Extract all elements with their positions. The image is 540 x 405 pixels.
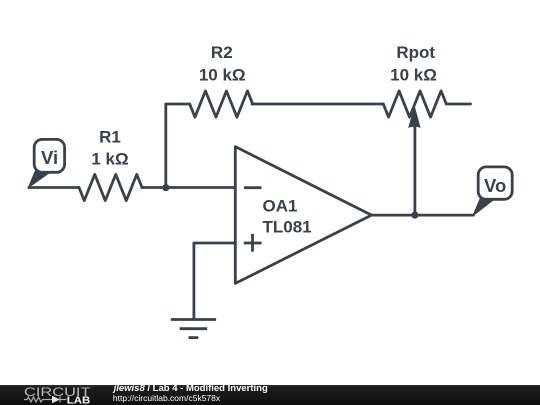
node junction at R1/R2 (162, 184, 169, 191)
resistor R1 (79, 127, 142, 200)
wire R2 to Rpot (252, 103, 383, 106)
potentiometer Rpot (383, 43, 446, 215)
wire op-amp output (372, 214, 474, 217)
wire op-amp non-inverting input to ground (194, 243, 236, 320)
wire junction up to R2 (166, 104, 189, 188)
CircuitLab logo (0, 384, 100, 405)
flag Vi (29, 139, 65, 187)
wire Vi to R1 (29, 186, 79, 189)
footer bar (0, 385, 540, 405)
resistor R2 (190, 43, 253, 117)
op-amp OA1 (235, 147, 371, 284)
flag Vo (473, 167, 512, 216)
node junction at output/wiper (411, 212, 418, 219)
ground (171, 320, 216, 338)
wire R1 to op-amp inverting input (142, 186, 236, 189)
wire Rpot open stub (446, 103, 470, 106)
